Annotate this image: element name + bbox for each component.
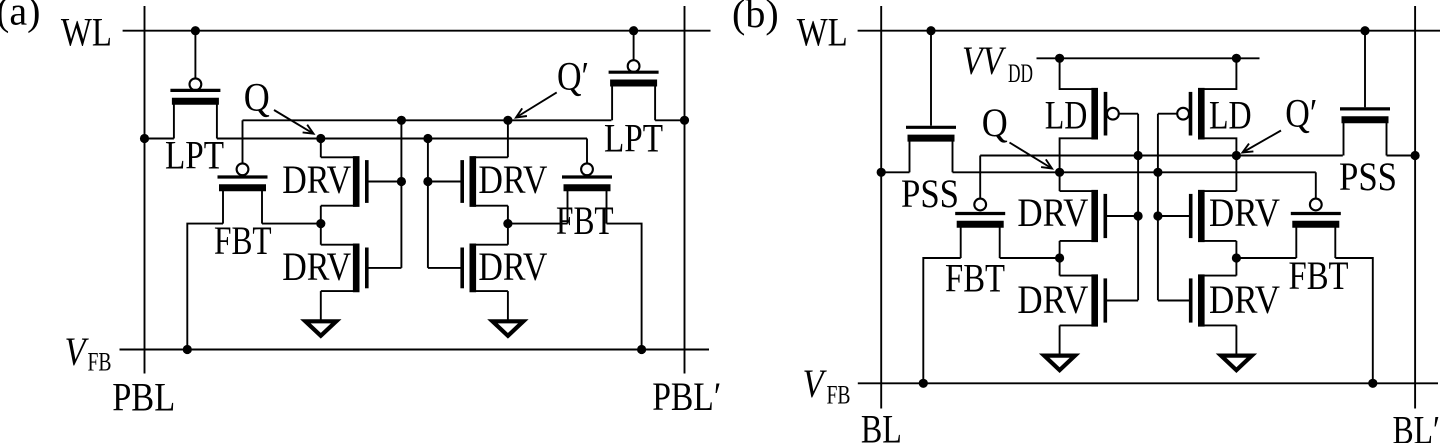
wire LD (right) drain to node Q'	[1201, 138, 1236, 155]
transistor FBT (b left) body	[955, 212, 1005, 215]
svg-text:PBL: PBL	[112, 374, 175, 419]
transistor FBT (right) gate bubble	[581, 163, 593, 175]
junction dot Q' line to left gate column	[397, 116, 406, 125]
ground symbol (b left)	[1044, 356, 1075, 371]
svg-text:DRV: DRV	[282, 244, 351, 289]
transistor FBT (b right) gate bubble	[1310, 199, 1322, 211]
wire node Q' line drop to left FBT gate	[242, 120, 244, 163]
svg-text:DD: DD	[1008, 59, 1033, 88]
arrow from Q' label to node (b)	[1243, 131, 1282, 153]
svg-text:DRV: DRV	[282, 157, 351, 202]
wire FBT (b right) leg to V_FB	[1335, 258, 1373, 383]
transistor PSS (right) gate stem from WL	[1364, 31, 1366, 108]
transistor LPT (right) gate stem from WL	[633, 31, 635, 61]
wire left DRV series node	[320, 206, 322, 245]
ground symbol (a left)	[305, 321, 336, 336]
node Q junction dot (b)	[1055, 168, 1064, 177]
node Q junction dot (a)	[316, 134, 325, 143]
wire FBT (b left) leg to V_FB	[923, 258, 960, 383]
transistor PSS (left) gate stem from WL	[930, 31, 932, 126]
arrow from Q label to node (a)	[274, 110, 314, 134]
transistor DRV (a, right top) body	[469, 156, 476, 207]
wire right DRV series node	[507, 206, 509, 245]
svg-text:(b): (b)	[732, 0, 779, 36]
svg-text:BL′: BL′	[1393, 408, 1440, 443]
transistor FBT (left) body	[218, 175, 268, 178]
transistor PSS (right) body	[1340, 107, 1390, 110]
transistor LPT (right) gate bubble	[628, 60, 640, 72]
svg-text:Q: Q	[982, 100, 1008, 145]
transistor DRV (b, right bottom) body	[1198, 274, 1205, 326]
wire right inverter gate column (b, from Q)	[1157, 114, 1159, 301]
node dot left mid (b)	[1055, 253, 1064, 262]
transistor LPT (left) body	[170, 89, 220, 92]
wire LD (right) gate to Q column	[1158, 113, 1177, 115]
wire WL (a)	[123, 30, 711, 32]
wire node Q line (a)	[217, 138, 587, 140]
wire FBT left leg to V_FB	[187, 224, 223, 350]
svg-text:DRV: DRV	[1017, 190, 1088, 235]
wire bit line PBL (left rail)	[144, 6, 146, 374]
svg-text:WL: WL	[61, 9, 112, 54]
transistor DRV (a, left bottom) body	[353, 244, 360, 293]
wire FBT left leg to right mid node	[508, 223, 568, 225]
wire node Q line drop to right FBT gate (b)	[1315, 172, 1317, 198]
transistor LPT (left) gate stem from WL	[194, 31, 196, 79]
transistor FBT (b left) gate bubble	[974, 199, 986, 211]
wire bit line PBL' (right rail)	[684, 6, 686, 374]
svg-text:DRV: DRV	[478, 157, 547, 202]
wire left inverter gate column (b, from Q')	[1137, 114, 1139, 301]
arrow from Q' label to node (a)	[516, 92, 557, 117]
svg-text:Q′: Q′	[557, 53, 589, 98]
node dot left mid (a)	[316, 219, 325, 228]
wire V_FB line (b)	[858, 382, 1438, 384]
node Q' junction dot (b)	[1232, 151, 1241, 160]
wire right DRV source to ground (b)	[1235, 325, 1237, 355]
node Q' junction dot (a)	[503, 116, 512, 125]
svg-text:LPT: LPT	[604, 116, 663, 161]
wire node Q' line (b)	[980, 155, 1343, 157]
svg-text:DRV: DRV	[1209, 190, 1280, 235]
wire left DRV source to ground	[320, 291, 322, 321]
ground symbol (a right)	[493, 321, 524, 336]
wire bit line BL (left rail)	[880, 6, 882, 409]
wire V_FB line (a)	[120, 349, 710, 351]
transistor DRV (b, right top) body	[1198, 190, 1205, 242]
svg-text:BL: BL	[861, 407, 902, 443]
svg-text:FB: FB	[88, 348, 112, 377]
wire FBT right leg to V_FB	[607, 224, 642, 350]
transistor FBT (b right) body	[1291, 212, 1341, 215]
arrow from Q label to node (b)	[1010, 143, 1053, 169]
wire left DRV source to ground (b)	[1059, 325, 1061, 355]
transistor FBT (right) body	[562, 175, 612, 178]
wire right DRV source to ground	[507, 291, 509, 321]
wire FBT (b right) left leg to mid node	[1236, 257, 1296, 259]
wire FBT (b left) right leg to mid node	[1000, 257, 1060, 259]
wire node Q to left DRV drain (b)	[1059, 172, 1061, 191]
wire PSS right leg to BL' rail	[1387, 155, 1416, 157]
svg-text:PSS: PSS	[1339, 154, 1397, 199]
svg-text:FBT: FBT	[945, 256, 1005, 301]
svg-text:(a): (a)	[0, 0, 40, 34]
svg-text:VV: VV	[962, 38, 1007, 83]
wire WL (b)	[858, 30, 1440, 32]
transistor PSS (left) body	[906, 126, 956, 129]
junction dot Q line to right gate column	[423, 134, 432, 143]
wire FBT right leg to mid node	[262, 223, 321, 225]
wire node Q' line drop to left FBT gate (b)	[979, 156, 981, 199]
svg-text:FBT: FBT	[556, 198, 614, 243]
node dot right mid (a)	[503, 219, 512, 228]
wire left DRV series node (b)	[1059, 241, 1061, 276]
transistor LD (right) body	[1198, 88, 1205, 140]
svg-text:LD: LD	[1209, 93, 1252, 138]
wire node Q' to right DRV drain	[507, 120, 509, 157]
junction dot Q line to right gate column (b)	[1153, 168, 1162, 177]
node dot right mid (b)	[1232, 253, 1241, 262]
junction dot Q' line to left gate column (b)	[1134, 151, 1143, 160]
wire right inverter gate column (from Q)	[427, 139, 429, 268]
transistor FBT (left) gate bubble	[237, 163, 249, 175]
wire LPT right leg to PBL' rail	[655, 119, 684, 121]
svg-text:DRV: DRV	[1209, 277, 1280, 322]
wire node Q to left DRV drain	[320, 139, 322, 158]
wire VV_DD to LD (right) source	[1201, 58, 1236, 89]
transistor DRV (b, left bottom) body	[1091, 274, 1098, 326]
svg-text:LD: LD	[1045, 93, 1088, 138]
wire VV_DD to LD (left) source	[1060, 58, 1095, 89]
svg-text:DRV: DRV	[478, 244, 547, 289]
transistor DRV (b, left top) body	[1091, 190, 1098, 242]
transistor LPT (right) body	[609, 71, 659, 74]
svg-text:Q′: Q′	[1285, 90, 1317, 135]
svg-text:Q: Q	[244, 75, 270, 120]
wire VV_DD supply line	[1037, 57, 1260, 59]
transistor LD (left) gate bubble	[1107, 108, 1119, 120]
svg-text:DRV: DRV	[1017, 277, 1088, 322]
wire BL rail to PSS left leg	[881, 171, 909, 173]
transistor LD (left) body	[1091, 88, 1098, 140]
svg-text:PSS: PSS	[901, 171, 959, 216]
ground symbol (b right)	[1221, 356, 1252, 371]
svg-text:FB: FB	[827, 381, 851, 410]
wire right DRV series node (b)	[1235, 241, 1237, 276]
wire node Q' line (a)	[243, 119, 612, 121]
svg-text:WL: WL	[797, 9, 848, 54]
wire LD (left) drain to node Q	[1060, 138, 1095, 172]
wire left inverter gate column (from Q')	[400, 120, 402, 268]
svg-text:PBL′: PBL′	[652, 374, 721, 419]
wire node Q line drop to right FBT gate	[586, 139, 588, 164]
transistor DRV (a, left top) body	[353, 156, 360, 207]
transistor LD (right) gate bubble	[1177, 108, 1189, 120]
svg-text:FBT: FBT	[1289, 253, 1349, 298]
wire node Q line (b)	[953, 171, 1316, 173]
wire bit line BL' (right rail)	[1414, 6, 1416, 409]
wire LD (left) gate to Q' column	[1119, 113, 1138, 115]
wire node Q' to right DRV drain (b)	[1235, 156, 1237, 192]
transistor DRV (a, right bottom) body	[469, 244, 476, 293]
wire PBL rail to LPT left leg	[145, 138, 174, 140]
transistor LPT (left) gate bubble	[190, 78, 202, 90]
svg-text:FBT: FBT	[214, 218, 272, 263]
